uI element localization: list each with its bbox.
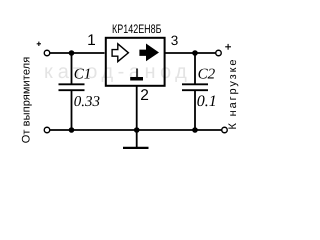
svg-text:К нагрузке: К нагрузке <box>227 60 239 130</box>
svg-text:2: 2 <box>140 87 149 104</box>
svg-text:0.33: 0.33 <box>74 94 100 110</box>
svg-text:C1: C1 <box>74 66 92 82</box>
svg-text:0.1: 0.1 <box>197 93 217 110</box>
svg-text:3: 3 <box>171 33 179 48</box>
svg-text:C2: C2 <box>198 66 216 82</box>
svg-text:От выпрямителя: От выпрямителя <box>20 57 32 144</box>
svg-text:КР142ЕН8Б: КР142ЕН8Б <box>112 22 162 36</box>
svg-text:1: 1 <box>87 32 96 49</box>
svg-text:катод-анод: катод-анод <box>44 61 191 83</box>
